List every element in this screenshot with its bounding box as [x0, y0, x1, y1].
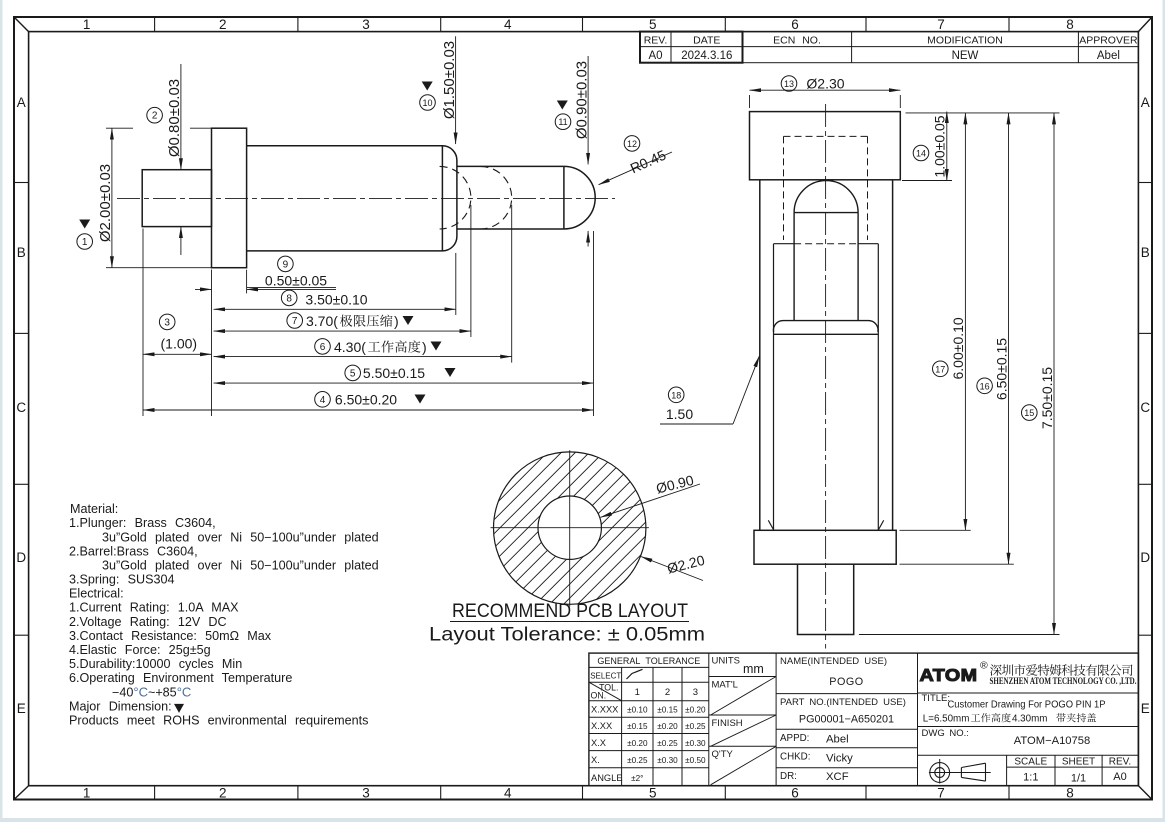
svg-text:±2°: ±2°: [631, 774, 643, 783]
svg-text:6.50±0.15: 6.50±0.15: [993, 338, 1009, 400]
svg-text:NEW: NEW: [952, 50, 979, 62]
svg-text:ATOM−A10758: ATOM−A10758: [1014, 735, 1090, 747]
svg-text:3: 3: [693, 687, 698, 698]
svg-text:Customer Drawing For POGO PIN: Customer Drawing For POGO PIN 1P: [948, 700, 1106, 711]
dimension 6: working height 4.30: [511, 205, 513, 363]
svg-text:3: 3: [362, 786, 370, 801]
svg-text:Abel: Abel: [826, 734, 849, 746]
svg-text:±0.15: ±0.15: [657, 706, 678, 715]
dimension 7: limit compression 3.70: [470, 205, 472, 337]
svg-text:5.Durability:10000 cycles Mi: 5.Durability:10000 cycles Min: [69, 657, 242, 671]
svg-text:PART NO.(INTENDED USE): PART NO.(INTENDED USE): [780, 697, 906, 708]
svg-text:A: A: [1141, 95, 1150, 110]
side view: phantom tip arc (fully compressed 3.70): [440, 166, 471, 229]
svg-text:): ): [394, 313, 399, 329]
svg-text:5: 5: [350, 368, 356, 379]
svg-text:Vicky: Vicky: [826, 753, 853, 765]
svg-text:5: 5: [649, 17, 657, 32]
side view: plunger tail block: [142, 170, 211, 227]
front view: cap inner hidden slot: [784, 135, 868, 137]
revision table heavy box REV/DATE: [640, 32, 743, 63]
svg-text:ATOM: ATOM: [920, 665, 978, 685]
svg-text:6.Operating Environment Temp: 6.Operating Environment Temperature: [69, 671, 292, 685]
svg-text:7: 7: [292, 316, 298, 327]
svg-text:A0: A0: [1113, 771, 1126, 783]
company block: [918, 692, 1139, 694]
dimension 10: barrel dia 1.50±0.03: [455, 36, 457, 144]
svg-text:1.50: 1.50: [666, 406, 693, 422]
select checkmark: [627, 669, 643, 679]
svg-text:MAT'L: MAT'L: [712, 680, 738, 691]
svg-text:Ø0.80±0.03: Ø0.80±0.03: [166, 79, 183, 157]
revision table: [640, 32, 1138, 63]
svg-text:3.50±0.10: 3.50±0.10: [305, 292, 367, 308]
svg-text:C: C: [1140, 400, 1150, 415]
side view: phantom tip arc (working height 4.30): [480, 166, 511, 229]
svg-text:1.Plunger: Brass C3604,: 1.Plunger: Brass C3604,: [69, 516, 216, 530]
dimension 16: 6.50±0.15: [1008, 113, 1010, 564]
svg-text:E: E: [17, 701, 26, 716]
svg-text:®: ®: [980, 660, 988, 672]
svg-text:X.XXX: X.XXX: [591, 705, 618, 715]
svg-text:DR:: DR:: [780, 771, 797, 782]
svg-text:SHEET: SHEET: [1062, 757, 1095, 768]
svg-text:Products meet ROHS environm: Products meet ROHS environmental require…: [69, 714, 368, 728]
svg-text:Major Dimension:: Major Dimension:: [69, 699, 172, 713]
svg-text:1: 1: [83, 786, 91, 801]
svg-text:17: 17: [935, 364, 945, 374]
front view: plunger sides: [793, 213, 795, 321]
PCB layout: dia 0.90 label: [601, 484, 701, 517]
zone ticks bottom band: [154, 786, 156, 800]
front view: bottom flange: [754, 530, 896, 564]
svg-text:A: A: [17, 95, 26, 110]
svg-text:±0.25: ±0.25: [685, 722, 706, 731]
extension line flange top: [900, 529, 971, 531]
svg-text:11: 11: [558, 117, 567, 127]
front view: plunger dome: [794, 181, 858, 213]
svg-text:2: 2: [152, 111, 158, 122]
side view: flange: [212, 128, 247, 268]
svg-text:L=6.50mm: L=6.50mm: [923, 714, 970, 725]
svg-text:FINISH: FINISH: [712, 718, 743, 729]
side view: center line: [117, 197, 615, 199]
svg-text:ON.: ON.: [591, 691, 607, 701]
PCB layout: hatching: [298, 438, 842, 618]
svg-text:4: 4: [320, 395, 326, 406]
svg-text:6.50±0.20: 6.50±0.20: [335, 392, 397, 408]
svg-text:B: B: [17, 245, 26, 260]
svg-text:1:1: 1:1: [1023, 772, 1038, 784]
svg-text:±0.50: ±0.50: [685, 756, 706, 765]
svg-text:4.30(: 4.30(: [334, 339, 366, 355]
PCB layout: hatched pad: [494, 452, 646, 604]
svg-text:CHKD:: CHKD:: [780, 752, 810, 763]
dimension 13: cap dia 2.30: [749, 95, 751, 108]
svg-text:5.50±0.15: 5.50±0.15: [363, 365, 425, 381]
svg-text:3.70(: 3.70(: [306, 313, 338, 329]
side view: barrel body: [247, 146, 457, 251]
svg-text:X.XX: X.XX: [591, 721, 612, 731]
dimension 14: cap height 1.00±0.05: [902, 180, 952, 182]
svg-text:7: 7: [937, 786, 945, 801]
extension line tail bottom: [859, 634, 1060, 636]
dimension 1: flange dia 2.00±0.03: [106, 127, 133, 129]
svg-text:Ø2.30: Ø2.30: [806, 76, 844, 92]
svg-text:1: 1: [82, 237, 88, 248]
svg-text:REV.: REV.: [1109, 757, 1131, 768]
svg-text:8: 8: [286, 293, 292, 304]
svg-text:SHENZHEN ATOM TECHNOLOGY CO. ,: SHENZHEN ATOM TECHNOLOGY CO. ,LTD.: [990, 677, 1137, 687]
dimension 3: tail length (1.00): [142, 229, 144, 417]
svg-text:1/1: 1/1: [1071, 773, 1086, 785]
svg-text:RECOMMEND PCB LAYOUT: RECOMMEND PCB LAYOUT: [452, 600, 688, 622]
svg-text:14: 14: [916, 149, 926, 159]
svg-text:Ø1.50±0.03: Ø1.50±0.03: [441, 41, 458, 119]
svg-text:13: 13: [784, 79, 794, 89]
tolerance diagonal TOL/ON: [589, 682, 622, 701]
svg-text:1.00±0.05: 1.00±0.05: [932, 115, 948, 177]
projection symbol: [930, 763, 950, 783]
svg-text:Material:: Material:: [70, 502, 118, 516]
svg-text:2024.3.16: 2024.3.16: [681, 50, 732, 62]
svg-text:8: 8: [1066, 786, 1074, 801]
svg-text:3: 3: [164, 317, 170, 328]
PCB layout: crosshair: [491, 527, 649, 529]
svg-text:TITLE:: TITLE:: [922, 693, 951, 704]
svg-text:4: 4: [504, 17, 512, 32]
svg-text:Layout Tolerance: ± 0.05mm: Layout Tolerance: ± 0.05mm: [429, 624, 705, 646]
svg-text:±0.25: ±0.25: [627, 756, 648, 765]
company chinese name: [990, 664, 1133, 676]
svg-text:APPROVER: APPROVER: [1079, 34, 1138, 46]
front view: vertical center line: [825, 104, 827, 649]
svg-text:4.30mm: 4.30mm: [1012, 714, 1047, 725]
svg-text:0.50±0.05: 0.50±0.05: [265, 273, 327, 289]
svg-text:2.Barrel:Brass C3604,: 2.Barrel:Brass C3604,: [69, 544, 198, 558]
svg-text:Abel: Abel: [1097, 50, 1120, 62]
svg-text:UNITS: UNITS: [712, 656, 741, 667]
dimension 4: overall 6.50±0.20: [143, 409, 594, 411]
svg-text:SCALE: SCALE: [1014, 757, 1047, 768]
svg-text:POGO: POGO: [829, 676, 863, 688]
svg-text:2: 2: [665, 687, 670, 698]
front view: outer shell sides: [759, 180, 761, 531]
front view: inner sleeve top edge: [774, 243, 795, 245]
front view: chamfer marks: [768, 520, 773, 530]
svg-text:3.Spring: SUS304: 3.Spring: SUS304: [69, 573, 175, 587]
svg-text:2: 2: [219, 17, 227, 32]
dimension 17: 6.00±0.10: [964, 113, 966, 530]
svg-text:7: 7: [937, 17, 945, 32]
dimension 5: 5.50±0.15: [593, 231, 595, 416]
svg-text:ECN NO.: ECN NO.: [773, 34, 821, 46]
svg-text:±0.30: ±0.30: [657, 756, 678, 765]
svg-text:3u”Gold plated over Ni 50−: 3u”Gold plated over Ni 50−100u”under pla…: [102, 530, 379, 544]
svg-text:±0.30: ±0.30: [685, 739, 706, 748]
svg-text:B: B: [1141, 245, 1150, 260]
svg-text:APPD:: APPD:: [780, 733, 809, 744]
svg-text:(1.00): (1.00): [161, 336, 198, 352]
svg-text:Ø0.90±0.03: Ø0.90±0.03: [573, 61, 590, 139]
extension line flange bottom: [900, 563, 1014, 565]
svg-text:DWG NO.:: DWG NO.:: [922, 728, 969, 739]
svg-text:±0.25: ±0.25: [657, 739, 678, 748]
side view: barrel end face line: [441, 146, 443, 251]
svg-text:2: 2: [219, 786, 227, 801]
projection cone: [961, 763, 985, 781]
svg-text:Ø2.00±0.03: Ø2.00±0.03: [97, 164, 114, 242]
svg-text:X.X: X.X: [591, 738, 606, 748]
svg-text:±0.20: ±0.20: [657, 722, 678, 731]
svg-text:D: D: [1140, 550, 1150, 565]
svg-text:12: 12: [627, 139, 637, 149]
svg-text:3.Contact Resistance: 50mΩ: 3.Contact Resistance: 50mΩ Max: [69, 629, 272, 643]
side view: plunger dome tip: [564, 166, 595, 229]
svg-text:C: C: [16, 400, 26, 415]
dimension 15: 7.50±0.15: [1053, 113, 1055, 635]
svg-text:16: 16: [980, 381, 990, 391]
zone ticks left band: [14, 182, 29, 184]
svg-text:7.50±0.15: 7.50±0.15: [1039, 367, 1055, 429]
svg-text:5: 5: [649, 786, 657, 801]
svg-text:REV.: REV.: [644, 34, 668, 46]
dimension 2: tail dia 0.80±0.03: [180, 64, 182, 170]
svg-text:ANGLE: ANGLE: [591, 773, 623, 783]
svg-text:18: 18: [671, 390, 681, 400]
svg-text:SELECT: SELECT: [590, 672, 621, 681]
svg-text:GENERAL TOLERANCE: GENERAL TOLERANCE: [597, 656, 700, 666]
dimension 18: shell 1.50 leader: [660, 423, 733, 425]
svg-text:E: E: [1141, 701, 1150, 716]
svg-text:±0.20: ±0.20: [685, 706, 706, 715]
svg-text:15: 15: [1024, 408, 1034, 418]
front view: inner sleeve sides: [773, 244, 775, 531]
dimension 8: barrel length 3.50±0.10: [455, 253, 457, 315]
svg-text:±0.10: ±0.10: [627, 706, 648, 715]
name column: [776, 693, 917, 695]
svg-text:±0.20: ±0.20: [627, 739, 648, 748]
svg-text:Electrical:: Electrical:: [69, 587, 124, 601]
dimension 9: flange thickness 0.50±0.05: [246, 270, 248, 294]
svg-text:X.: X.: [591, 755, 600, 765]
svg-text:mm: mm: [743, 662, 764, 676]
svg-text:XCF: XCF: [826, 771, 849, 783]
svg-text:6: 6: [791, 786, 799, 801]
svg-text:DATE: DATE: [693, 34, 720, 46]
svg-text:6.00±0.10: 6.00±0.10: [950, 317, 966, 379]
svg-text:PG00001−A650201: PG00001−A650201: [799, 714, 894, 726]
front view: clip cap: [750, 112, 901, 180]
svg-text:1.Current Rating: 1.0A MAX: 1.Current Rating: 1.0A MAX: [69, 601, 239, 615]
front view: barrel shoulder: [773, 321, 878, 332]
svg-text:10: 10: [422, 98, 432, 108]
svg-text:D: D: [16, 550, 26, 565]
svg-text:MODIFICATION: MODIFICATION: [927, 34, 1003, 46]
svg-text:8: 8: [1066, 17, 1074, 32]
svg-text:3: 3: [362, 17, 370, 32]
svg-text:NAME(INTENDED USE): NAME(INTENDED USE): [780, 656, 887, 667]
units/matl/finish/qty column: [709, 676, 776, 678]
dimension 11: plunger dia 0.90±0.03: [587, 56, 589, 164]
frame corner bevels: [14, 17, 29, 32]
front view: solder tail: [798, 564, 854, 634]
general tolerance table: [589, 666, 709, 668]
zone ticks right band: [1138, 182, 1152, 184]
extension line cap top: [906, 112, 1060, 114]
svg-text:A0: A0: [648, 50, 662, 62]
svg-text:1: 1: [635, 687, 640, 698]
svg-text:1: 1: [83, 17, 91, 32]
svg-text:6: 6: [791, 17, 799, 32]
svg-text:9: 9: [283, 259, 289, 270]
svg-text:4.Elastic Force: 25g±5g: 4.Elastic Force: 25g±5g: [69, 643, 211, 657]
side view: plunger shaft: [457, 165, 564, 167]
svg-text:±0.15: ±0.15: [627, 722, 648, 731]
svg-text:3u”Gold plated over Ni 50−: 3u”Gold plated over Ni 50−100u”under pla…: [102, 559, 379, 573]
zone ticks top band: [154, 17, 156, 32]
svg-text:4: 4: [504, 786, 512, 801]
svg-text:−40°C~+85°C: −40°C~+85°C: [112, 684, 191, 699]
dimension 12: tip radius R0.45: [599, 152, 672, 185]
PCB layout: dia 2.20 label: [641, 557, 703, 581]
svg-text:Q'TY: Q'TY: [712, 749, 734, 760]
title block outline: [589, 653, 1139, 786]
scale sheet rev cells: [1006, 755, 1008, 785]
svg-text:2.Voltage Rating: 12V DC: 2.Voltage Rating: 12V DC: [69, 615, 227, 629]
svg-text:6: 6: [320, 342, 326, 353]
page edge shading: [0, 0, 3, 822]
svg-text:): ): [422, 339, 427, 355]
